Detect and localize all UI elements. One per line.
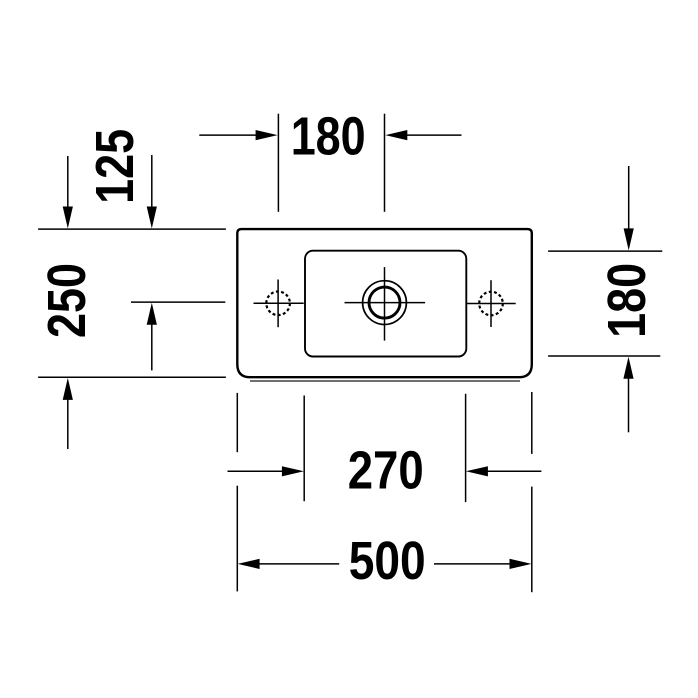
right dim 180 bottom arrow bbox=[623, 357, 633, 433]
left hole crosshair vertical bbox=[277, 280, 279, 328]
left hole crosshair horizontal bbox=[254, 302, 304, 304]
right dim 180 bottom extension line bbox=[548, 355, 660, 357]
bottom right outer extension line (x=531.8, with gap) bbox=[531, 392, 533, 592]
svg-text:500: 500 bbox=[349, 531, 426, 591]
dim 250 bottom arrow bbox=[63, 378, 73, 449]
dim 500 right arrow bbox=[434, 559, 532, 569]
basin outer outline bbox=[237, 229, 532, 377]
svg-text:125: 125 bbox=[85, 129, 145, 204]
left top reference line (basin top edge extension) bbox=[38, 228, 226, 230]
inner bowl outline bbox=[305, 251, 466, 357]
top dim 180 left arrow bbox=[199, 130, 277, 140]
right dim 180 top arrow bbox=[624, 166, 634, 250]
svg-text:180: 180 bbox=[291, 107, 366, 167]
left bottom reference line (basin bottom edge extension) bbox=[38, 376, 226, 378]
dim 250 top arrow bbox=[63, 156, 73, 229]
right mounting hole dashed circle bbox=[479, 292, 503, 316]
svg-text:180: 180 bbox=[597, 263, 657, 338]
svg-text:250: 250 bbox=[37, 263, 97, 338]
faucet crosshair horizontal bbox=[345, 302, 426, 304]
top dim 180 right extension line bbox=[384, 114, 386, 212]
right hole crosshair horizontal bbox=[467, 303, 516, 305]
bottom left outer extension line (x=237.3, with gap) bbox=[236, 393, 238, 592]
svg-text:270: 270 bbox=[348, 440, 424, 500]
faucet hole inner circle bbox=[369, 287, 400, 318]
dim 270 right arrow bbox=[466, 466, 542, 476]
dim 500 left arrow bbox=[238, 559, 340, 569]
dim 125 bottom arrow bbox=[147, 303, 157, 371]
top dim 180 right arrow bbox=[385, 130, 461, 140]
bottom inner-left extension line (x=304.2) bbox=[303, 396, 305, 502]
faucet hole outer circle bbox=[363, 281, 407, 325]
right hole crosshair vertical bbox=[490, 280, 492, 327]
dim 270 left arrow bbox=[228, 466, 304, 476]
top dim 180 left extension line bbox=[277, 114, 279, 212]
dim 125 top arrow bbox=[147, 155, 157, 229]
basin front lip line bbox=[250, 380, 520, 382]
faucet crosshair vertical bbox=[384, 267, 386, 341]
left middle reference line (hole centerline extension) bbox=[131, 301, 225, 303]
bottom inner-right extension line (x=465.6) bbox=[465, 394, 467, 502]
left mounting hole dashed circle bbox=[266, 292, 290, 316]
right dim 180 top extension line bbox=[548, 250, 662, 252]
